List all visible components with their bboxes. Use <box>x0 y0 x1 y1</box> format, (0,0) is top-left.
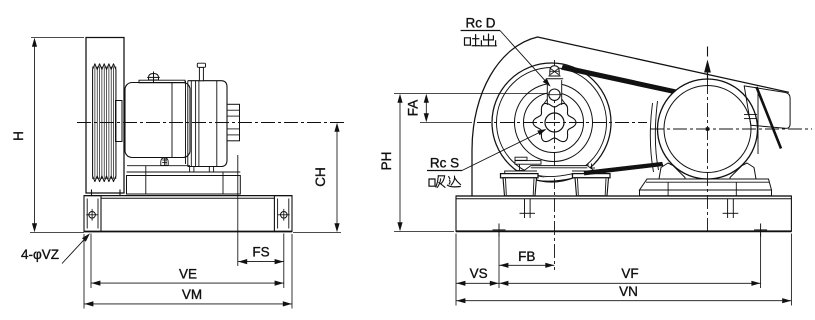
base hole center mark right <box>754 229 767 231</box>
right view: front elevation <box>379 16 812 306</box>
support pedestal block <box>127 176 241 195</box>
centerline (pump shaft axis, left view) <box>77 122 344 124</box>
dimension FA <box>420 122 472 124</box>
belt guard (side view) <box>86 38 124 194</box>
svg-text:VE: VE <box>179 267 197 282</box>
bearing end cover plate <box>116 101 123 142</box>
suction port Rc S circle <box>545 113 564 132</box>
air vent pipe on casing <box>199 67 203 80</box>
suction flange (side view) <box>227 104 240 141</box>
discharge neck <box>547 79 561 94</box>
foot bolt right <box>587 164 589 175</box>
pump casing inner circles <box>515 84 593 162</box>
svg-text:CH: CH <box>313 167 328 187</box>
pump support saddle <box>523 166 594 171</box>
svg-text:PH: PH <box>379 152 394 171</box>
belt guard right end arcs behind motor <box>650 103 653 172</box>
motor foot bracket left <box>659 163 685 179</box>
support bracket plate <box>127 165 190 167</box>
housing/casing junction <box>185 81 187 164</box>
svg-text:FS: FS <box>252 245 269 260</box>
suction flange lobed boss <box>533 103 576 141</box>
label 吸込 (suction, CJK drawn) <box>429 176 461 188</box>
svg-text:H: H <box>11 131 26 141</box>
anchor bolt left (hidden) <box>524 199 526 218</box>
svg-text:VS: VS <box>470 266 488 281</box>
motor centerline horizontal <box>650 128 812 130</box>
motor slide base <box>640 179 772 190</box>
dimension VM <box>83 234 85 309</box>
terminal box <box>744 86 790 128</box>
base hole center mark left <box>493 229 506 231</box>
svg-text:Rc D: Rc D <box>466 16 496 31</box>
discharge port Rc D circle <box>549 89 560 100</box>
right base foot with hole <box>274 196 292 232</box>
dimension FB <box>498 234 500 289</box>
svg-text:4-φVZ: 4-φVZ <box>21 247 59 262</box>
motor center mark <box>706 128 709 131</box>
leader Rc S <box>462 130 545 171</box>
pump foot left <box>501 174 539 178</box>
V-belt top run <box>562 65 679 94</box>
svg-text:VN: VN <box>619 284 638 299</box>
bedplate base (front view) <box>456 195 791 197</box>
saddle clamp bolt left <box>515 157 527 160</box>
pump volute casing outer circles <box>492 63 611 182</box>
leader Rc D <box>500 31 549 86</box>
motor centerline vertical <box>707 80 709 233</box>
pump centerline horizontal <box>477 122 647 124</box>
dimension H <box>31 37 84 39</box>
pump centerline vertical <box>554 60 556 270</box>
dimension VN <box>790 234 792 306</box>
dimension VE <box>90 234 92 289</box>
bedplate base (left view) <box>84 195 292 197</box>
dimension VS <box>455 234 457 306</box>
bearing housing <box>125 83 190 158</box>
svg-text:Rc S: Rc S <box>430 156 459 171</box>
svg-text:VM: VM <box>182 287 202 302</box>
pump foot right <box>573 174 611 178</box>
dimension PH <box>394 93 547 95</box>
dimension CH <box>293 232 341 234</box>
belt guard (front view) <box>472 37 789 196</box>
guard edge bold diagonal <box>757 87 782 149</box>
svg-text:FB: FB <box>518 249 535 264</box>
arrow above motor on centerline <box>707 70 709 80</box>
belt guard legs <box>91 190 93 197</box>
volute bottom arcs <box>537 170 572 179</box>
bearing bracket joint line <box>171 83 173 158</box>
dimension FS <box>237 194 239 266</box>
motor foot bracket right <box>730 163 756 179</box>
small bolt on support <box>161 158 168 166</box>
svg-text:FA: FA <box>406 100 421 117</box>
V-belt bottom run <box>584 162 663 175</box>
svg-text:VF: VF <box>621 266 638 281</box>
V-belt pulley <box>93 64 116 70</box>
casing support feet (side view) <box>189 167 191 173</box>
anchor bolt right (hidden) <box>727 199 729 218</box>
oil plug on bearing housing <box>149 74 159 81</box>
bearing housing top plate <box>139 80 185 83</box>
label 吐出 (discharge, CJK drawn) <box>465 34 497 46</box>
left view: side elevation of pump unit <box>11 38 344 309</box>
air vent plug on discharge <box>550 66 559 76</box>
dimension VF <box>760 234 762 289</box>
pump casing (side view) <box>188 81 227 167</box>
foot bolt left <box>519 164 521 175</box>
motor body right edge <box>757 92 759 154</box>
motor face circle <box>664 86 751 173</box>
motor outer circle <box>658 79 758 179</box>
left base foot with hole <box>84 196 101 232</box>
